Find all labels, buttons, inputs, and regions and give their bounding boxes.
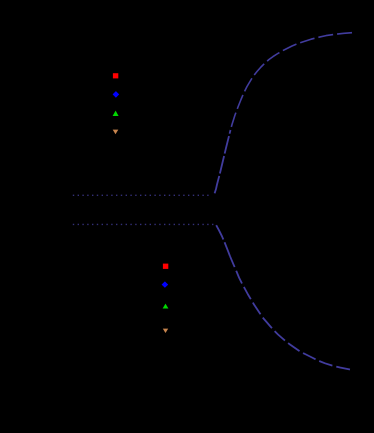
legend marker: blue diamond (top) <box>113 91 120 98</box>
lower dashed branch curve (steep part) <box>216 225 230 256</box>
upper dotted baseline <box>73 194 211 196</box>
upper dashed branch curve (steep part) <box>215 130 231 193</box>
legend marker: tan triangle-down (top) <box>113 130 119 135</box>
upper dashed branch curve (flatter part) <box>231 33 353 130</box>
lower dashed branch curve (flatter part) <box>230 256 350 369</box>
legend marker: green triangle-up (top) <box>113 111 119 116</box>
legend marker: tan triangle-down (bottom) <box>163 329 168 333</box>
legend marker: green triangle-up (bottom) <box>163 304 169 309</box>
legend marker: red square (top) <box>113 73 118 78</box>
legend marker: red square (bottom) <box>163 264 168 269</box>
lower dotted baseline <box>73 223 215 225</box>
legend marker: blue diamond (bottom) <box>162 281 169 287</box>
